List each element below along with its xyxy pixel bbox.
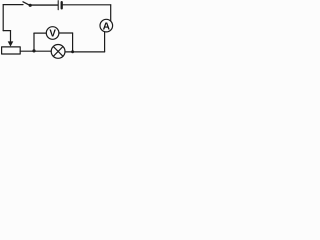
wire switch to battery — [32, 4, 58, 6]
junction dot left of lamp — [32, 49, 35, 52]
wire battery to top-right corner — [63, 4, 111, 6]
wire ammeter to bottom-right corner — [104, 32, 106, 52]
svg-text:V: V — [49, 29, 56, 40]
voltmeter V1 circle — [46, 27, 59, 40]
wire left vertical — [2, 5, 4, 31]
rheostat slider stem — [10, 31, 12, 43]
switch S1 pivot dot — [29, 4, 32, 7]
rheostat R1 box — [2, 47, 21, 54]
lamp L1 cross — [53, 47, 63, 57]
wire lamp to rheostat — [20, 50, 51, 52]
battery B1 long plate — [57, 1, 59, 10]
rheostat slider arrowhead — [8, 41, 14, 46]
voltmeter branch right horizontal — [59, 32, 73, 34]
svg-text:A: A — [103, 21, 111, 32]
voltmeter branch right vertical — [72, 33, 74, 52]
voltmeter branch left vertical — [33, 33, 35, 51]
wire jog to slider — [3, 30, 10, 32]
voltmeter branch left horizontal — [34, 32, 46, 34]
wire right drop to ammeter — [110, 5, 112, 21]
junction dot right of lamp — [71, 50, 74, 53]
battery B1 short thick plate — [61, 2, 63, 8]
wire top-left segment — [3, 4, 23, 6]
wire bottom-right horizontal — [65, 51, 105, 53]
lamp L1 circle — [51, 45, 65, 59]
ammeter A1 circle — [100, 19, 113, 32]
switch S1 blade — [23, 2, 30, 6]
